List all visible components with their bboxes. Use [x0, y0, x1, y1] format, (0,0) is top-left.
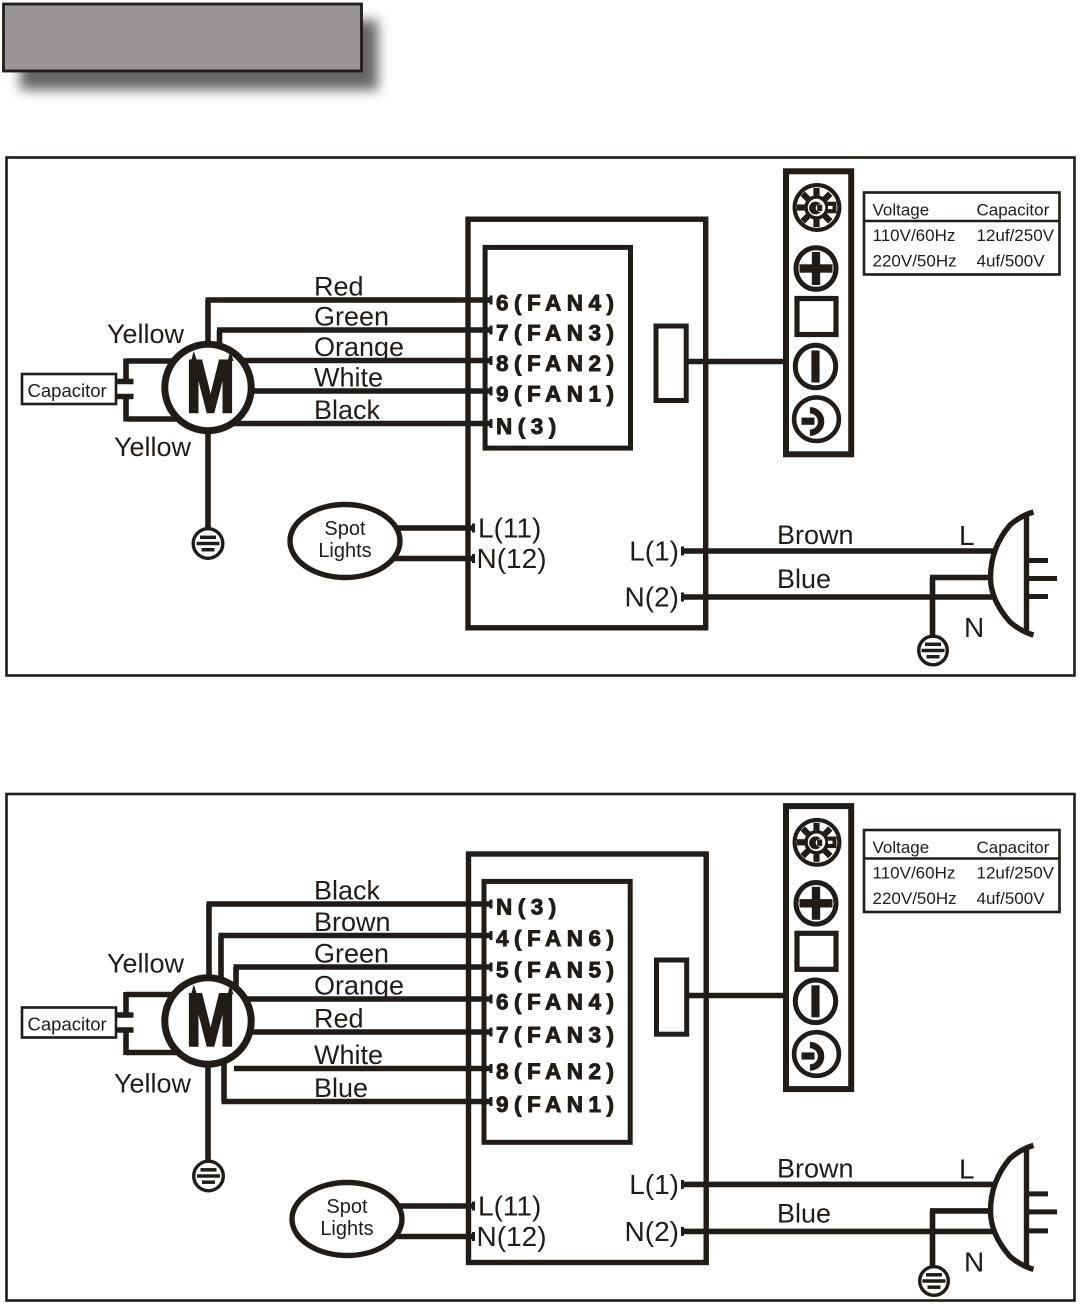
- wire motor to capacitor top: [126, 358, 176, 364]
- svg-text:Yellow: Yellow: [107, 949, 185, 979]
- tick L(1): [681, 547, 684, 556]
- svg-text:Blue: Blue: [777, 1198, 831, 1228]
- wire capacitor bus bottom vertical: [123, 395, 129, 422]
- svg-text:Capacitor: Capacitor: [28, 1014, 107, 1035]
- relay/receiver box: [657, 960, 687, 1034]
- terminal tick Brown: [490, 931, 493, 940]
- wire capacitor bus bottom vertical: [123, 1029, 129, 1056]
- plug prong middle: [1027, 576, 1057, 581]
- table header separator: [864, 857, 1060, 860]
- terminal tick Orange: [490, 356, 493, 365]
- wire White: [248, 388, 492, 394]
- wire spot lights N(12): [347, 1234, 475, 1240]
- tick N(12): [472, 554, 475, 563]
- light dimmer plus icon: [796, 883, 836, 925]
- svg-text:Black: Black: [314, 395, 381, 425]
- terminal tick Blue: [490, 1097, 493, 1106]
- wire to mains ground: [930, 597, 936, 637]
- reverse rotation icon: [794, 397, 839, 441]
- svg-text:12uf/250V: 12uf/250V: [977, 226, 1055, 245]
- wire White: [234, 1066, 493, 1072]
- svg-text:7(FAN3): 7(FAN3): [496, 321, 620, 346]
- tick L(1): [681, 1180, 684, 1189]
- tick N(2): [681, 1227, 684, 1236]
- voltage/capacitor table box: [864, 193, 1060, 275]
- relay/receiver box: [656, 326, 686, 401]
- svg-text:L: L: [959, 1153, 975, 1184]
- plug body: [991, 512, 1034, 635]
- stop square icon: [797, 299, 836, 335]
- svg-text:Black: Black: [314, 876, 381, 906]
- svg-text:Voltage: Voltage: [873, 838, 930, 857]
- svg-text:8(FAN2): 8(FAN2): [496, 1059, 620, 1084]
- wire capacitor bus top vertical: [123, 992, 129, 1017]
- wire Orange: [243, 996, 493, 1002]
- plug body: [991, 1145, 1034, 1269]
- svg-text:N(3): N(3): [496, 895, 562, 920]
- motor ground symbol: [193, 529, 223, 559]
- tick L(11): [472, 1202, 475, 1211]
- wire Red: [206, 300, 493, 347]
- svg-text:Spot: Spot: [324, 518, 366, 540]
- wire Brown L(1) to plug: [682, 1182, 996, 1188]
- capacitor box: [22, 374, 116, 404]
- light dimmer plus icon: [796, 248, 836, 290]
- wire Black: [231, 421, 492, 427]
- svg-text:L(11): L(11): [478, 1191, 541, 1222]
- terminal tick Green: [490, 326, 493, 335]
- svg-text:Voltage: Voltage: [873, 201, 930, 220]
- remote control panel box: [786, 171, 851, 454]
- motor circle M: [165, 344, 251, 430]
- spot lights ellipse: [290, 505, 400, 578]
- svg-text:Lights: Lights: [320, 1218, 373, 1240]
- svg-text:Blue: Blue: [777, 564, 831, 594]
- terminal tick Red: [490, 296, 493, 305]
- wire Brown L(1) to plug: [682, 548, 996, 554]
- svg-text:5(FAN5): 5(FAN5): [496, 958, 620, 983]
- wire neutral jog horizontal: [930, 1208, 992, 1214]
- wire Blue N(2) to plug: [682, 1229, 995, 1235]
- svg-text:Brown: Brown: [777, 1153, 854, 1183]
- terminal block box: [484, 881, 630, 1142]
- diagram frame bottom: [7, 794, 1075, 1301]
- title box (redacted gray): [4, 4, 362, 71]
- wire motor to ground: [205, 1062, 211, 1163]
- wire relay to remote: [687, 993, 786, 999]
- wire motor to capacitor top: [126, 992, 176, 998]
- wire spot lights L(11): [347, 1203, 475, 1209]
- svg-text:Brown: Brown: [314, 907, 391, 937]
- svg-text:Spot: Spot: [326, 1196, 368, 1218]
- svg-text:Green: Green: [314, 939, 389, 969]
- svg-text:Capacitor: Capacitor: [28, 380, 107, 401]
- tick N(2): [681, 593, 684, 602]
- svg-text:Green: Green: [314, 302, 389, 332]
- svg-text:7(FAN3): 7(FAN3): [496, 1023, 620, 1048]
- capacitor terminal stub bottom: [114, 394, 134, 400]
- wire spot lights L(11): [345, 525, 475, 531]
- plug prong middle: [1027, 1209, 1057, 1214]
- light on/off icon: [795, 345, 835, 388]
- svg-text:L(11): L(11): [478, 513, 541, 544]
- control box: [469, 854, 707, 1263]
- svg-text:Lights: Lights: [318, 540, 371, 562]
- wire Red: [247, 1029, 492, 1035]
- motor circle M: [165, 978, 251, 1064]
- svg-text:N(2): N(2): [625, 1216, 679, 1247]
- svg-text:Capacitor: Capacitor: [977, 201, 1050, 220]
- svg-text:L(1): L(1): [629, 536, 679, 567]
- reverse rotation icon: [794, 1032, 839, 1076]
- voltage/capacitor table box: [864, 830, 1060, 912]
- svg-text:12uf/250V: 12uf/250V: [977, 864, 1055, 883]
- spot lights label: [320, 1196, 373, 1240]
- svg-text:Orange: Orange: [314, 971, 404, 1001]
- capacitor terminal stub top: [114, 379, 134, 385]
- terminal tick Red: [490, 1028, 493, 1037]
- mains ground symbol: [919, 636, 948, 665]
- title box shadow: [20, 20, 378, 90]
- control box: [468, 219, 706, 628]
- svg-text:4uf/500V: 4uf/500V: [977, 252, 1046, 271]
- svg-text:N(2): N(2): [625, 582, 679, 613]
- terminal tick Orange: [490, 995, 493, 1004]
- svg-text:4(FAN6): 4(FAN6): [496, 926, 620, 951]
- svg-text:N(3): N(3): [496, 414, 562, 439]
- wire neutral jog vertical: [930, 1211, 936, 1234]
- svg-text:L(1): L(1): [629, 1169, 679, 1200]
- svg-text:N(12): N(12): [477, 543, 547, 574]
- svg-text:Orange: Orange: [314, 332, 404, 362]
- svg-text:9(FAN1): 9(FAN1): [496, 382, 620, 407]
- terminal block box: [485, 247, 630, 448]
- terminal tick Black: [490, 900, 493, 909]
- spot lights ellipse: [292, 1183, 402, 1256]
- wire Orange: [240, 358, 493, 364]
- svg-text:8(FAN2): 8(FAN2): [496, 351, 620, 376]
- svg-text:Blue: Blue: [314, 1073, 368, 1103]
- wire relay to remote: [686, 359, 786, 365]
- wire Green: [234, 967, 493, 990]
- svg-text:Brown: Brown: [777, 520, 854, 550]
- wire motor to capacitor bottom: [126, 1050, 180, 1056]
- svg-text:110V/60Hz: 110V/60Hz: [873, 864, 956, 883]
- wire motor to capacitor bottom: [126, 416, 180, 422]
- terminal tick Black: [490, 419, 493, 428]
- capacitor terminal stub bottom: [114, 1027, 134, 1033]
- svg-text:N(12): N(12): [477, 1221, 547, 1252]
- wire neutral jog vertical: [930, 578, 936, 600]
- wire motor to ground: [205, 428, 211, 530]
- wire to mains ground: [930, 1231, 936, 1267]
- svg-text:220V/50Hz: 220V/50Hz: [873, 252, 957, 271]
- tick L(11): [472, 524, 475, 533]
- wire Blue N(2) to plug: [682, 594, 995, 600]
- svg-text:9(FAN1): 9(FAN1): [496, 1092, 620, 1117]
- motor ground symbol: [194, 1161, 224, 1191]
- fan speed dial icon: [795, 820, 840, 865]
- svg-text:6(FAN4): 6(FAN4): [496, 291, 620, 316]
- svg-text:220V/50Hz: 220V/50Hz: [873, 889, 957, 908]
- terminal tick White: [490, 1064, 493, 1073]
- svg-text:Red: Red: [314, 272, 364, 302]
- wire spot lights N(12): [345, 556, 475, 562]
- svg-text:N: N: [964, 1246, 984, 1277]
- plug prong N: [1027, 1228, 1048, 1233]
- svg-text:Yellow: Yellow: [114, 1069, 192, 1099]
- capacitor box: [22, 1008, 116, 1038]
- wire Green: [217, 330, 493, 348]
- wire neutral jog horizontal: [930, 575, 992, 581]
- stop square icon: [797, 933, 836, 969]
- diagram frame top: [7, 158, 1075, 676]
- svg-text:White: White: [314, 363, 383, 393]
- plug prong N: [1027, 594, 1048, 599]
- terminal tick Green: [490, 963, 493, 972]
- svg-text:Capacitor: Capacitor: [977, 838, 1050, 857]
- svg-text:L: L: [959, 520, 975, 551]
- wire Blue: [222, 1059, 493, 1102]
- plug prong L: [1027, 1191, 1048, 1196]
- svg-text:Yellow: Yellow: [107, 319, 185, 349]
- svg-text:White: White: [314, 1040, 383, 1070]
- svg-text:Yellow: Yellow: [114, 432, 192, 462]
- terminal tick White: [490, 387, 493, 396]
- wire capacitor bus top vertical: [123, 359, 129, 384]
- capacitor terminal stub top: [114, 1012, 134, 1018]
- mains ground symbol: [920, 1267, 949, 1296]
- svg-text:110V/60Hz: 110V/60Hz: [873, 226, 956, 245]
- remote control panel box: [786, 806, 851, 1089]
- svg-text:N: N: [964, 612, 984, 643]
- svg-text:4uf/500V: 4uf/500V: [977, 889, 1046, 908]
- fan speed dial icon: [795, 185, 840, 230]
- spot lights label: [318, 518, 371, 562]
- table header separator: [864, 220, 1060, 223]
- svg-text:Red: Red: [314, 1004, 364, 1034]
- svg-text:6(FAN4): 6(FAN4): [496, 990, 620, 1015]
- tick N(12): [472, 1232, 475, 1241]
- light on/off icon: [795, 980, 835, 1023]
- plug prong L: [1027, 558, 1048, 563]
- wire Black: [207, 904, 493, 981]
- wire Brown: [219, 936, 493, 983]
